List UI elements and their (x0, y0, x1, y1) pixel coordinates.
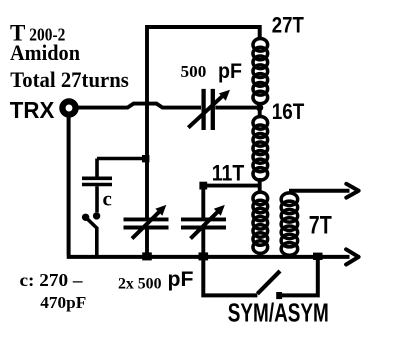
svg-text:Total 27turns: Total 27turns (10, 67, 129, 92)
svg-text:2x 500: 2x 500 (118, 275, 162, 292)
svg-text:TRX: TRX (10, 97, 55, 123)
svg-text:c: c (103, 187, 112, 211)
svg-text:SYM/ASYM: SYM/ASYM (228, 298, 329, 328)
svg-text:c: 270 –: c: 270 – (20, 270, 84, 290)
svg-text:470pF: 470pF (40, 293, 86, 312)
svg-text:pF: pF (218, 60, 242, 83)
svg-text:7T: 7T (309, 212, 332, 240)
svg-text:Amidon: Amidon (10, 40, 80, 65)
svg-text:500: 500 (181, 62, 207, 81)
svg-text:16T: 16T (272, 99, 305, 124)
svg-text:pF: pF (168, 268, 194, 291)
svg-text:11T: 11T (212, 161, 245, 186)
svg-text:27T: 27T (272, 13, 304, 38)
